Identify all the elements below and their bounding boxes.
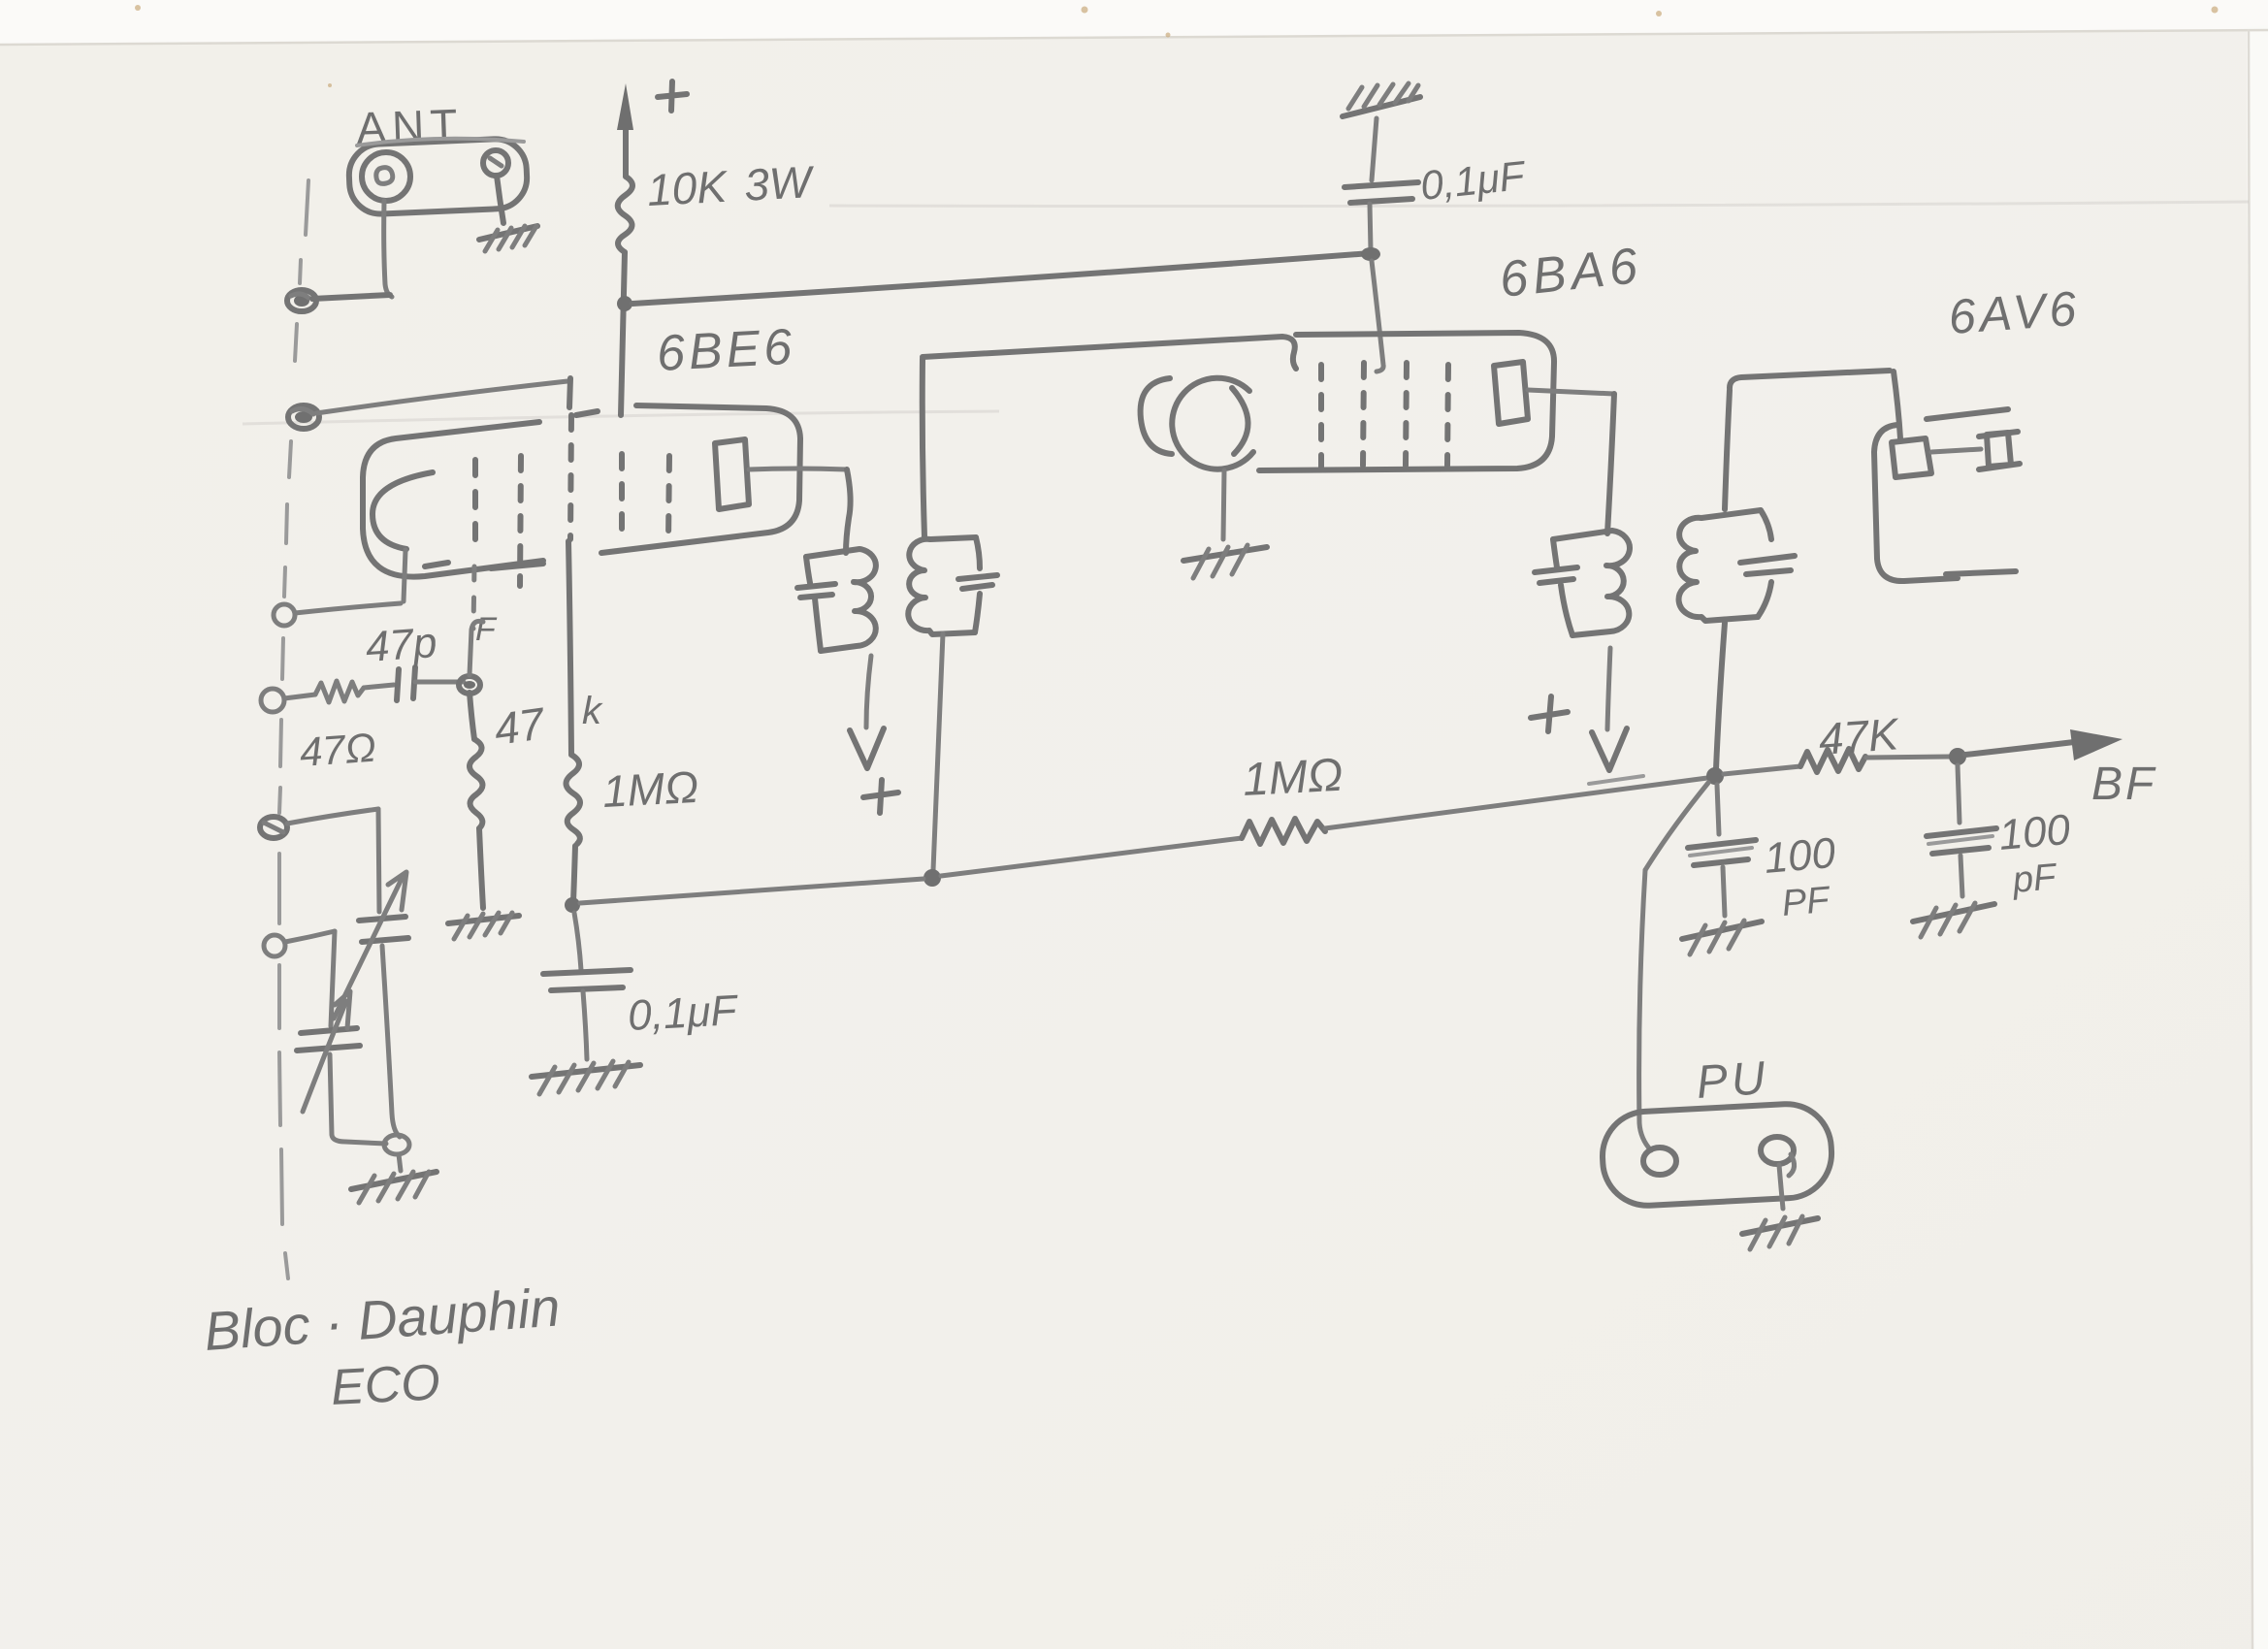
wire IFT1 sec top to 6BA6 grid	[923, 359, 924, 536]
wire 10K down to 6BE6	[621, 252, 625, 415]
6BE6 grid g4 (dashed)	[619, 454, 625, 543]
node (detector junction)	[1706, 767, 1724, 785]
terminal T3	[274, 604, 295, 626]
capacitor 0,1uF (cathode bypass)	[543, 970, 631, 990]
tube 6AV6 envelope	[1874, 425, 2016, 581]
wire T4 to resistor	[284, 695, 315, 698]
svg-text:F: F	[475, 611, 498, 648]
wire IFT2 sec to 6AV6 grid	[1730, 371, 1890, 388]
wire gang to ground	[399, 1154, 401, 1171]
IFT2 secondary coil	[1679, 510, 1795, 621]
svg-text:BF: BF	[2091, 759, 2156, 810]
ground (tuning gang)	[351, 1172, 437, 1203]
svg-text:47p: 47p	[364, 619, 438, 671]
ground (100pF no1)	[1682, 921, 1762, 954]
arrow (osc gang)	[334, 872, 406, 1018]
ground (100pF no2)	[1913, 903, 1994, 937]
6BE6 grid g3 (dashed)	[570, 415, 571, 539]
terminal (gang frame)	[384, 1135, 409, 1154]
node (B+ distribution)	[617, 296, 632, 311]
wire to BF output	[1965, 742, 2074, 755]
wire terminal B to ground	[497, 176, 503, 223]
node (BF junction)	[1949, 748, 1966, 765]
antenna terminal strip	[348, 138, 529, 215]
wire node down to 6BA6 screen	[1372, 261, 1383, 372]
wire detector to 100pF no1	[1717, 785, 1719, 834]
wire 6AV6 grid drop	[1894, 372, 1900, 438]
resistor 47K	[1800, 749, 1865, 772]
tube 6BA6 envelope	[1141, 333, 1554, 470]
node (cap to g3 line junction)	[459, 676, 480, 694]
svg-text:ECO: ECO	[330, 1354, 442, 1416]
wire ground to 0,1uF	[1372, 118, 1377, 180]
resistor 1M (AVC)	[1242, 819, 1325, 844]
6BE6 grid1 pin tick	[569, 378, 570, 407]
6BE6 screen tie bar	[491, 564, 543, 568]
label 100 PF no1	[1763, 829, 1838, 924]
6BA6 grid g3 (dashed)	[1406, 363, 1407, 466]
svg-text:PF: PF	[1780, 880, 1832, 924]
label ANT	[356, 99, 465, 153]
variable capacitor (osc gang)	[359, 917, 408, 942]
IFT2 primary coil	[1535, 531, 1630, 635]
6BE6 grid tick (B+)	[576, 411, 598, 415]
wire 47K to BF node	[1866, 757, 1950, 758]
wire BF node to 100pF no2	[1958, 765, 1960, 823]
dashed bus line (left)	[279, 180, 308, 1278]
arrow BF	[2070, 729, 2122, 760]
wire (grid bus to 6BA6)	[923, 337, 1296, 369]
wire PU riser	[1639, 870, 1651, 1150]
6BE6 grid g2 (dashed)	[520, 456, 521, 586]
diode arrow (IFT1 primary, osc)	[850, 656, 884, 768]
ground (g3 / 47 resistor)	[448, 913, 519, 939]
svg-text:pF: pF	[2010, 857, 2059, 901]
terminal T5	[260, 817, 287, 838]
wire 100pF no2 to ground	[1960, 856, 1962, 896]
wire 6BA6 plate to IFT2	[1528, 390, 1614, 394]
6AV6 diode link	[1931, 449, 1981, 452]
wire resistor to capacitor	[364, 685, 394, 688]
svg-text:k: k	[582, 690, 603, 732]
wire g3 resistor to ground	[479, 828, 483, 908]
wire AVC junction to k junction	[580, 879, 923, 903]
terminal T6	[264, 935, 285, 956]
wire T6 to ant gang	[285, 931, 335, 942]
wire T5 to padder line	[287, 809, 378, 824]
6BE6 cathode tick	[425, 563, 448, 566]
antenna terminal B (small circle)	[483, 150, 508, 176]
wire plate lead down	[846, 469, 851, 553]
wire IFT1 sec bottom to AVC	[933, 633, 943, 870]
svg-text:100: 100	[1997, 806, 2073, 859]
tube 6BE6 envelope	[363, 405, 800, 577]
B+ arrow	[617, 83, 633, 177]
6BE6 grid g1 (dashed)	[472, 460, 478, 545]
6BE6 grid g5 (dashed)	[668, 456, 669, 541]
wire IFT2 pri top lead	[1607, 394, 1614, 533]
wire 100pF no1 to ground	[1723, 867, 1725, 916]
plus sign (det)	[1531, 696, 1568, 731]
terminal T4	[261, 689, 284, 712]
6BA6 grid g1 (dashed)	[1318, 365, 1324, 468]
resistor 1Mohm (k line, S-squiggle)	[567, 755, 581, 844]
plus sign (B+)	[658, 81, 687, 111]
svg-text:PU: PU	[1695, 1052, 1770, 1109]
wire AVC to 1M resistor	[941, 838, 1242, 876]
capacitor 100pF no1	[1688, 840, 1756, 865]
node (AVC junction)	[923, 869, 941, 887]
svg-text:1MΩ: 1MΩ	[1242, 750, 1345, 806]
6BA6 grid g2 (dashed)	[1363, 363, 1364, 466]
plus sign (osc)	[863, 780, 898, 813]
wire 1M to detector junction	[1325, 778, 1707, 828]
svg-text:0,1μF: 0,1μF	[627, 986, 740, 1040]
wire g3 line upper hook	[470, 621, 483, 675]
capacitor 47p	[397, 667, 464, 700]
capacitor 0,1uF (AVC)	[1345, 182, 1418, 203]
6AV6 plate bar	[1927, 409, 2008, 419]
variable capacitor (ant gang)	[297, 1028, 360, 1051]
wire ant gang bottom lead	[330, 1054, 386, 1144]
PU terminal left	[1643, 1148, 1676, 1175]
wire junction to 0,1uF	[574, 913, 581, 970]
wire 6BE6 plate to IFT1	[749, 469, 847, 469]
svg-text:6AV6: 6AV6	[1947, 281, 2082, 344]
svg-text:1MΩ: 1MΩ	[601, 761, 699, 817]
node (screen feed)	[1361, 247, 1380, 261]
resistor 47ohm	[315, 681, 364, 702]
6AV6 grid box	[1892, 438, 1931, 477]
capacitor 100pF no2	[1927, 828, 1996, 854]
IFT1 primary coil	[797, 549, 876, 651]
label 47p F	[364, 611, 498, 671]
node (osc grid dot)	[288, 405, 319, 429]
paper specks	[135, 5, 2219, 87]
wire T3 to 6BE6 cathode	[295, 603, 401, 613]
wire antenna A down to node	[384, 201, 392, 297]
PU terminal strip	[1601, 1102, 1834, 1208]
svg-text:10K 3W: 10K 3W	[646, 156, 817, 215]
faint fold line right	[829, 202, 2249, 207]
wire node to 6BE6 grid1	[316, 381, 567, 413]
ground (6BA6 cathode)	[1183, 545, 1267, 578]
node (k line / AVC wire junction)	[565, 897, 580, 913]
wire detector to 47K	[1724, 766, 1800, 774]
wire IFT2 sec top lead	[1725, 390, 1730, 509]
wire osc gang bottom lead	[382, 946, 400, 1137]
6BA6 plate	[1494, 362, 1528, 424]
svg-text:100: 100	[1763, 829, 1838, 883]
resistor 47K (g3 line, S-squiggle)	[470, 739, 483, 828]
6BE6 cathode	[373, 472, 433, 601]
wire k resistor to junction	[573, 846, 575, 902]
diode arrow (IFT2, det)	[1589, 648, 1643, 784]
6BE6 g3 lead (dashed, below)	[473, 566, 474, 629]
ground (top right)	[1343, 83, 1420, 116]
faint fold line left	[243, 411, 999, 424]
antenna terminal A (big circle)	[362, 152, 410, 201]
resistor 10K 3W (S-squiggle)	[618, 177, 632, 252]
wire g3 line (junction down)	[470, 693, 474, 739]
wire ant gang top lead	[331, 931, 335, 1026]
wire 0,1uF to node	[1370, 204, 1371, 250]
svg-text:6BE6: 6BE6	[656, 319, 797, 382]
svg-text:47: 47	[491, 697, 548, 755]
6BA6 cathode	[1172, 378, 1253, 539]
svg-text:47Ω: 47Ω	[298, 725, 377, 775]
ground (antenna strip)	[479, 226, 537, 251]
IFT1 secondary coil	[908, 537, 997, 634]
arrow (ant gang)	[303, 991, 350, 1112]
wire 0,1uF to ground	[583, 991, 587, 1059]
PU terminal right	[1761, 1137, 1794, 1164]
ground (PU)	[1742, 1216, 1818, 1249]
wire PU right to ground	[1779, 1154, 1795, 1209]
wire B+ to 0,1uF junction (long top wire)	[632, 253, 1371, 304]
6AV6 diode plate box	[1979, 432, 2020, 469]
wire detector to PU (diagonal)	[1645, 783, 1708, 870]
wire cathode k line	[568, 541, 571, 755]
ground (0,1uF left)	[532, 1061, 640, 1094]
wire IFT2 sec bottom to detector	[1716, 623, 1725, 769]
label 100 pF no2	[1997, 806, 2073, 901]
wire padder line down to osc gang	[378, 809, 379, 912]
wire node to antenna lead	[312, 295, 390, 299]
6BA6 grid g4 (dashed)	[1447, 365, 1448, 466]
6BE6 plate	[715, 439, 749, 509]
node (antenna input dot)	[287, 290, 316, 311]
